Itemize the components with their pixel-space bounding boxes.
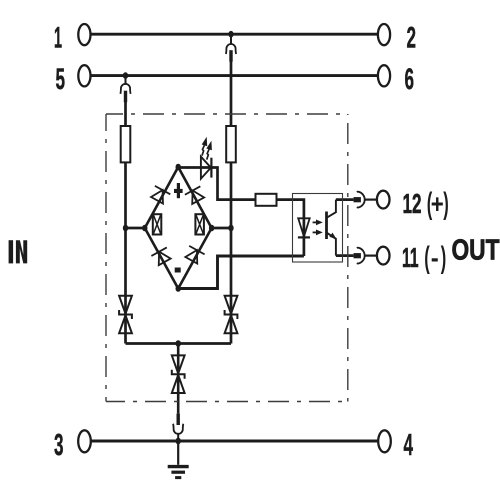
svg-text:5: 5	[56, 63, 66, 96]
svg-text:12: 12	[403, 188, 422, 219]
svg-text:11: 11	[402, 242, 419, 273]
svg-text:1: 1	[54, 22, 62, 55]
svg-text:OUT: OUT	[452, 234, 500, 266]
svg-text:): )	[441, 240, 447, 275]
svg-text:-: -	[431, 243, 439, 273]
svg-text:): )	[443, 186, 449, 221]
svg-text:4: 4	[404, 427, 414, 462]
svg-text:(: (	[424, 240, 430, 275]
svg-text:3: 3	[54, 427, 64, 462]
svg-text:2: 2	[407, 22, 417, 55]
svg-text:6: 6	[405, 63, 415, 96]
svg-text:+: +	[431, 189, 444, 219]
